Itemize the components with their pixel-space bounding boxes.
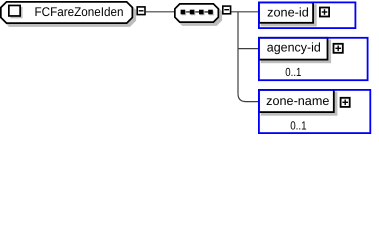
svg-text:0..1: 0..1: [285, 65, 301, 79]
svg-text:zone-name: zone-name: [266, 94, 329, 108]
svg-text:agency-id: agency-id: [267, 41, 321, 55]
svg-text:zone-id: zone-id: [267, 5, 309, 19]
svg-text:0..1: 0..1: [290, 119, 306, 133]
svg-text:FCFareZoneIden: FCFareZoneIden: [35, 5, 124, 19]
